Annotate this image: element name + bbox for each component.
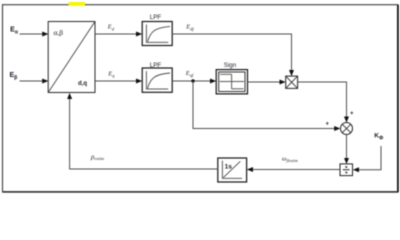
svg-text:Edf: Edf (185, 24, 194, 32)
LPF1 block (142, 22, 172, 46)
svg-text:+: + (326, 122, 330, 128)
wire transform to LPF1 (95, 32, 142, 37)
svg-text:Eqf: Eqf (185, 70, 194, 78)
svg-text:Ed: Ed (107, 24, 115, 32)
svg-text:α,β: α,β (54, 28, 64, 37)
svg-text:+: + (350, 111, 354, 117)
multiplier X block (286, 76, 298, 88)
svg-text:LPF: LPF (150, 62, 162, 69)
svg-text:ωflestim: ωflestim (282, 156, 298, 163)
LPF2 block (142, 68, 172, 92)
yellow highlight marker (69, 2, 86, 6)
svg-text:Eβ: Eβ (10, 72, 18, 81)
divider block (340, 164, 353, 176)
wire summing circle to divider (344, 135, 349, 165)
svg-text:Eq: Eq (107, 71, 115, 79)
wire E_beta input (20, 79, 49, 84)
transform block alpha-beta to d-q (48, 22, 95, 93)
Sign block (216, 70, 247, 94)
svg-text:LPF: LPF (150, 14, 162, 21)
wire transform to LPF2 (95, 79, 142, 84)
wire multiplier out to summing circle (298, 82, 349, 123)
wire feedback rho to transform block (67, 93, 218, 169)
wire LPF1 out to corner and down to multiplier (172, 34, 294, 76)
svg-text:1s: 1s (225, 164, 233, 171)
wire Sign to multiplier (248, 80, 286, 85)
wire LPF2 out to Sign (172, 79, 216, 84)
junction dot (191, 79, 194, 82)
wire branch down to summing circle (193, 81, 340, 131)
svg-text:KΦ: KΦ (374, 133, 383, 142)
svg-text:Eα: Eα (10, 27, 19, 36)
wire divider out to integrator (247, 167, 340, 172)
svg-text:d,q: d,q (78, 81, 87, 87)
wire E_alpha input (20, 32, 49, 37)
summing junction circle (341, 123, 353, 135)
svg-text:Sign: Sign (224, 62, 237, 69)
svg-text:ρestim: ρestim (90, 153, 105, 161)
wire K_phi to divider (353, 146, 381, 172)
integrator block 1/s (218, 158, 247, 182)
